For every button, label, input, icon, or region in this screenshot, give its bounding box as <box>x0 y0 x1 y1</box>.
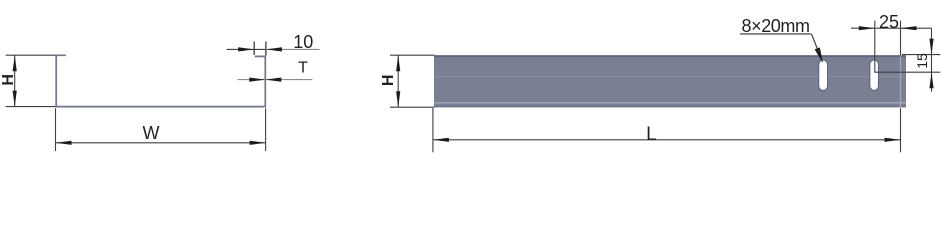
dimension L extension right <box>900 108 902 152</box>
dimension 10 arrow pointing left <box>266 47 282 51</box>
bar mid highlight line <box>434 76 906 78</box>
dimension H (right view) arrow down <box>396 91 400 107</box>
dimension W extension right <box>265 108 267 151</box>
dimension W arrow left <box>56 141 72 145</box>
dimension 15 line <box>931 28 933 91</box>
dimension H (left view) extension bottom <box>6 106 57 108</box>
label 8x20mm underline <box>740 33 811 35</box>
svg-text:10: 10 <box>293 32 313 52</box>
dimension H (right view) extension top <box>390 54 435 56</box>
dimension L arrow right <box>885 138 901 142</box>
dimension 25 line <box>851 27 932 29</box>
dimension L line <box>433 139 901 141</box>
svg-text:15: 15 <box>914 53 930 69</box>
dimension L arrow left <box>433 138 449 142</box>
dimension T line right tail <box>265 79 312 81</box>
dimension 10 tick left <box>253 42 255 55</box>
slot hole 2 (8x20mm) <box>870 60 879 90</box>
dimension H (left view) arrow down <box>13 91 17 107</box>
dimension T arrow pointing right <box>249 78 265 82</box>
dimension 10 line right tail <box>266 48 320 50</box>
dimension 25 extension left with jog to slot center <box>875 21 941 73</box>
dimension H (left view) line <box>14 55 16 106</box>
bar body (side view) <box>434 55 906 107</box>
dimension 10 tick right <box>265 42 267 56</box>
dimension 10 line left tail <box>227 48 266 50</box>
dimension T arrow pointing left <box>265 78 281 82</box>
dimension H (right view) line <box>397 55 399 107</box>
svg-text:W: W <box>143 123 160 143</box>
svg-text:T: T <box>298 60 308 77</box>
channel profile outline <box>56 55 265 106</box>
bar bottom edge <box>434 106 906 108</box>
dimension 15 arrow up <box>929 72 933 88</box>
dimension 25 arrow pointing left <box>901 26 917 30</box>
dimension W extension left <box>55 108 57 151</box>
dimension L extension left <box>432 108 434 152</box>
dimension H (right view) arrow up <box>396 55 400 71</box>
bar right bevel line <box>900 56 902 107</box>
bar top edge <box>434 55 906 57</box>
dimension H (left view) arrow up <box>13 55 17 71</box>
leader arrowhead <box>815 47 823 63</box>
dimension 15 arrow down <box>929 39 933 55</box>
dimension 15 extension top <box>902 54 940 56</box>
dimension H (left view) extension top <box>6 54 57 56</box>
dimension 25 arrow pointing right <box>859 26 875 30</box>
svg-text:H: H <box>0 74 17 86</box>
dimension T line left tail <box>238 79 266 81</box>
svg-text:L: L <box>646 124 657 145</box>
dimension W arrow right <box>250 141 266 145</box>
svg-text:8×20mm: 8×20mm <box>742 16 811 36</box>
svg-text:H: H <box>380 75 397 87</box>
bar bottom bevel line <box>434 102 906 104</box>
dimension W line <box>56 142 266 144</box>
dimension 25 extension right <box>900 21 902 56</box>
svg-text:25: 25 <box>879 12 899 32</box>
dimension 10 arrow pointing right <box>238 47 254 51</box>
leader line to slot 1 <box>812 34 819 51</box>
dimension H (right view) extension bottom <box>390 106 435 108</box>
slot hole 1 (8x20mm) <box>819 60 828 90</box>
